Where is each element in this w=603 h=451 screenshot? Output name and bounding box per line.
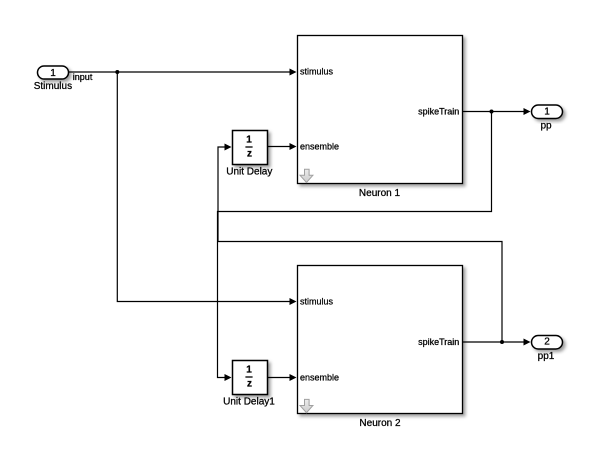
svg-text:pp: pp <box>540 121 552 132</box>
arrowhead into Neuron2 ensemble <box>290 374 297 381</box>
svg-text:spikeTrain: spikeTrain <box>418 337 459 347</box>
arrowhead into Unit Delay <box>225 144 232 151</box>
wire Unit Delay output to Neuron1 ensemble <box>268 146 291 148</box>
svg-text:1: 1 <box>50 68 56 79</box>
svg-text:stimulus: stimulus <box>300 67 334 77</box>
wire feedback Neuron1 output down to Unit Delay1 input <box>218 112 492 378</box>
svg-text:1: 1 <box>246 365 252 376</box>
subsystem Neuron 1 <box>298 36 463 184</box>
arrowhead into Neuron1 stimulus <box>290 69 297 76</box>
wire input branch down to Neuron2 stimulus <box>117 72 290 302</box>
arrowhead into pp <box>524 108 531 115</box>
junction Neuron2 output branch <box>500 340 504 344</box>
inport Stimulus (port 1) <box>38 66 69 79</box>
svg-text:Neuron 1: Neuron 1 <box>359 188 401 199</box>
gray dropdown arrow Neuron 2 <box>300 399 313 412</box>
arrowhead into Unit Delay1 <box>225 374 232 381</box>
svg-text:stimulus: stimulus <box>300 297 334 307</box>
svg-text:ensemble: ensemble <box>300 141 339 151</box>
arrowhead into pp1 <box>524 339 531 346</box>
svg-text:Unit Delay1: Unit Delay1 <box>223 396 275 407</box>
svg-text:spikeTrain: spikeTrain <box>418 107 459 117</box>
svg-text:Stimulus: Stimulus <box>34 81 72 92</box>
wire Neuron1 spikeTrain to pp <box>463 111 525 113</box>
gray dropdown arrow Neuron 1 <box>300 169 313 182</box>
svg-text:Unit Delay: Unit Delay <box>226 166 272 177</box>
svg-text:z: z <box>247 149 252 160</box>
outport pp (port 1) <box>532 105 563 119</box>
wire feedback Neuron2 output up to Unit Delay input <box>218 147 502 342</box>
svg-text:ensemble: ensemble <box>300 372 339 382</box>
wire Neuron2 spikeTrain to pp1 <box>463 341 525 343</box>
arrowhead into Neuron2 stimulus <box>290 298 297 305</box>
svg-text:pp1: pp1 <box>538 351 555 362</box>
svg-text:z: z <box>247 379 252 390</box>
svg-text:1: 1 <box>246 135 252 146</box>
unit delay block Unit Delay1 <box>233 361 268 395</box>
arrowhead into Neuron1 ensemble <box>290 143 297 150</box>
junction Neuron1 output branch <box>490 110 494 114</box>
svg-text:Neuron 2: Neuron 2 <box>359 418 401 429</box>
svg-text:2: 2 <box>544 337 550 348</box>
outport pp1 (port 2) <box>532 336 563 350</box>
svg-text:1: 1 <box>544 107 550 118</box>
junction input branch <box>115 70 119 74</box>
svg-text:input: input <box>73 72 93 82</box>
wire Unit Delay1 output to Neuron2 ensemble <box>268 377 291 379</box>
wire Stimulus to Neuron1 stimulus <box>69 71 291 73</box>
subsystem Neuron 2 <box>298 266 463 414</box>
unit delay block Unit Delay <box>233 131 268 165</box>
